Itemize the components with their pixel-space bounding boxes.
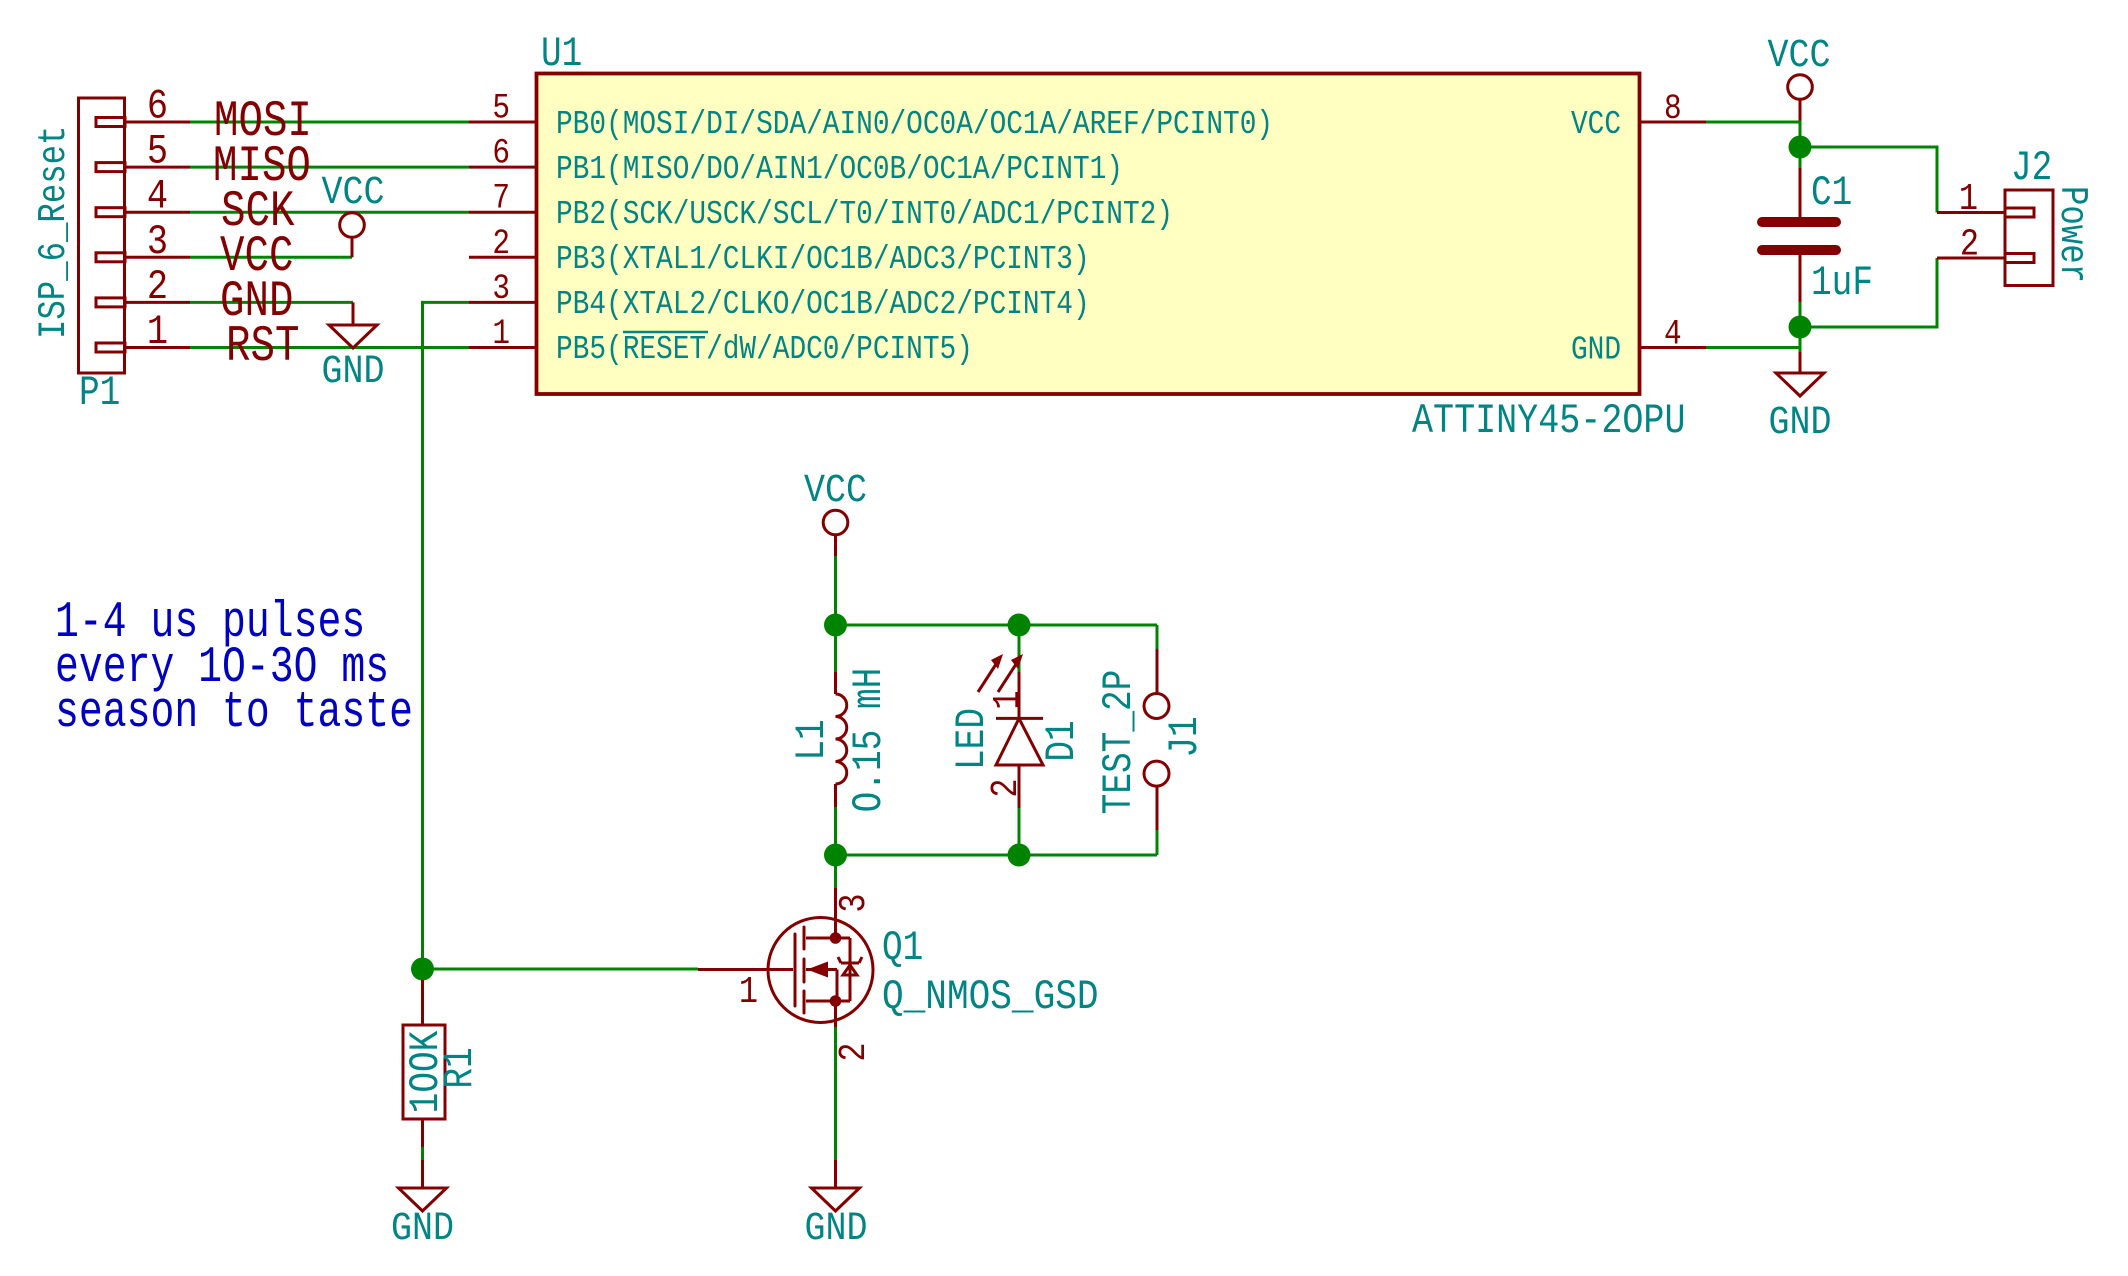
svg-text:LED: LED [949, 708, 996, 770]
svg-text:GND: GND [1571, 331, 1621, 369]
J2 pin 1 [1937, 178, 2005, 221]
U1 pin 5 PB0 [469, 88, 1273, 144]
U1 pin 4 GND [1571, 314, 1706, 369]
svg-text:RST: RST [226, 318, 299, 375]
svg-text:2: 2 [985, 778, 1028, 797]
junction top rail L1 [824, 614, 847, 637]
svg-text:D1: D1 [1039, 720, 1086, 761]
svg-text:VCC: VCC [1571, 106, 1621, 144]
svg-text:4: 4 [1664, 314, 1682, 354]
svg-text:PB2(SCK/USCK/SCL/T0/INT0/ADC1/: PB2(SCK/USCK/SCL/T0/INT0/ADC1/PCINT2) [556, 196, 1173, 234]
junction top rail D1 [1008, 614, 1031, 637]
power symbol VCC near P1 [321, 171, 384, 257]
svg-text:3: 3 [833, 893, 876, 912]
wire VCC to J2 pin1 [1800, 147, 1937, 213]
U1 pin 7 PB2 [469, 178, 1173, 233]
svg-text:1: 1 [492, 314, 510, 354]
P1 pin 3 [125, 218, 190, 266]
junction GND node [1789, 316, 1812, 339]
wire GND to J2 pin2 [1800, 258, 1937, 327]
U1 pin 1 PB5 [469, 314, 973, 369]
svg-text:7: 7 [492, 178, 510, 218]
svg-text:J1: J1 [1162, 716, 1209, 757]
svg-text:VCC: VCC [321, 171, 384, 216]
junction gate node [411, 958, 434, 981]
svg-text:GND: GND [804, 1207, 867, 1252]
P1 pin 2 [125, 263, 190, 311]
resistor R1 [403, 980, 445, 1147]
junction bottom rail L1 [824, 844, 847, 867]
wire gate (junction to Q1 gate) [423, 968, 699, 971]
svg-text:Q1: Q1 [882, 925, 923, 972]
svg-text:8: 8 [1664, 89, 1682, 129]
wire MOSI [190, 121, 469, 124]
wire GND pin4 [1706, 346, 1800, 349]
svg-text:1: 1 [739, 971, 758, 1014]
svg-text:VCC: VCC [1767, 34, 1830, 79]
wire R1 to GND [421, 1147, 424, 1160]
svg-text:2: 2 [147, 263, 168, 311]
U1 pin 8 VCC [1571, 89, 1706, 144]
U1 pin 3 PB4 [469, 269, 1090, 324]
power symbol VCC top right [1767, 34, 1830, 122]
svg-text:3: 3 [147, 218, 168, 266]
wire SCK [190, 211, 469, 214]
transistor Q1 [698, 888, 876, 1062]
P1 pin 6 [125, 83, 190, 131]
svg-text:1: 1 [1959, 178, 1978, 221]
wire J1 top [1156, 625, 1159, 649]
svg-text:Power: Power [2050, 186, 2094, 283]
svg-text:J2: J2 [2011, 145, 2052, 192]
wire top rail [836, 624, 1158, 627]
svg-text:GND: GND [391, 1207, 454, 1252]
ground symbol below Q1 [804, 1160, 867, 1252]
test point J1 [1144, 649, 1169, 830]
wire D1 bottom [1018, 808, 1021, 855]
J2 pin 2 [1937, 223, 2005, 266]
svg-text:5: 5 [147, 128, 168, 176]
svg-text:2: 2 [833, 1042, 876, 1061]
wire J1 bottom [1156, 830, 1159, 855]
wire GND (P1 pin2 to GND symbol) [190, 301, 353, 304]
P1 pin 1 [125, 308, 190, 356]
U1 pin 2 PB3 [469, 224, 1090, 279]
svg-text:PB0(MOSI/DI/SDA/AIN0/OC0A/OC1A: PB0(MOSI/DI/SDA/AIN0/OC0A/OC1A/AREF/PCIN… [556, 106, 1273, 144]
svg-text:6: 6 [492, 133, 510, 173]
svg-text:1uF: 1uF [1811, 260, 1873, 307]
svg-text:3: 3 [492, 269, 510, 309]
inductor L1 [836, 672, 847, 807]
U1 pin 6 PB1 [469, 133, 1123, 189]
wire VCC center down [834, 556, 837, 625]
svg-text:Q_NMOS_GSD: Q_NMOS_GSD [882, 974, 1099, 1021]
wire L1 top [834, 625, 837, 672]
note text [55, 594, 413, 742]
wire D1 top [1018, 625, 1021, 672]
IC U1 body [537, 74, 1640, 395]
wire VCC pin8 [1706, 122, 1800, 168]
svg-text:1: 1 [147, 308, 168, 356]
connector P1 body [79, 98, 126, 373]
LED D1 [978, 654, 1043, 808]
svg-text:O.15 mH: O.15 mH [846, 668, 893, 813]
wire MISO [190, 166, 469, 169]
svg-text:L1: L1 [789, 719, 836, 760]
ground symbol below R1 [391, 1160, 454, 1252]
svg-text:GND: GND [321, 350, 384, 395]
svg-text:VCC: VCC [804, 469, 867, 514]
ground symbol below C1 [1768, 352, 1831, 446]
svg-text:GND: GND [1768, 401, 1831, 446]
wire Q1 source [834, 1027, 837, 1160]
svg-text:5: 5 [492, 88, 510, 128]
ground symbol near P1 [321, 302, 384, 394]
svg-text:season to taste: season to taste [55, 684, 413, 742]
P1 pin 4 [125, 173, 190, 221]
power symbol VCC center [804, 469, 867, 556]
svg-text:1: 1 [987, 690, 1030, 709]
wire bottom rail [836, 854, 1158, 857]
P1 pin 5 [125, 128, 190, 176]
svg-text:ATTINY45-2OPU: ATTINY45-2OPU [1412, 397, 1685, 445]
svg-text:PB3(XTAL1/CLKI/OC1B/ADC3/PCINT: PB3(XTAL1/CLKI/OC1B/ADC3/PCINT3) [556, 241, 1090, 279]
svg-text:2: 2 [1960, 223, 1979, 266]
connector J2 body [2005, 190, 2053, 286]
svg-text:P1: P1 [79, 370, 120, 417]
wire Q1 drain [834, 855, 837, 890]
svg-text:6: 6 [147, 83, 168, 131]
capacitor C1 [1762, 168, 1836, 302]
svg-text:R1: R1 [437, 1047, 484, 1088]
svg-text:PB4(XTAL2/CLKO/OC1B/ADC2/PCINT: PB4(XTAL2/CLKO/OC1B/ADC2/PCINT4) [556, 286, 1090, 324]
wire L1 bottom [834, 807, 837, 855]
svg-text:C1: C1 [1811, 170, 1852, 217]
svg-text:TEST_2P: TEST_2P [1096, 670, 1143, 815]
junction VCC node [1789, 136, 1812, 159]
svg-text:2: 2 [492, 224, 510, 264]
junction bottom rail D1 [1008, 844, 1031, 867]
wire PB4 net (vertical to gate node) [423, 302, 470, 969]
wire C1 bottom [1799, 302, 1802, 352]
svg-text:U1: U1 [541, 31, 582, 78]
svg-text:PB1(MISO/DO/AIN1/OC0B/OC1A/PCI: PB1(MISO/DO/AIN1/OC0B/OC1A/PCINT1) [556, 151, 1123, 189]
wire VCC (P1 pin3 to VCC symbol) [190, 256, 352, 259]
wire RST [190, 346, 469, 349]
svg-text:PB5(RESET/dW/ADC0/PCINT5): PB5(RESET/dW/ADC0/PCINT5) [556, 331, 973, 369]
svg-text:4: 4 [147, 173, 168, 221]
svg-text:ISP_6_Reset: ISP_6_Reset [32, 126, 76, 339]
